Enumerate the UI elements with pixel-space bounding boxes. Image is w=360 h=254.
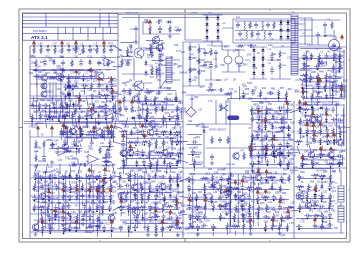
svg-text:4.7K: 4.7K bbox=[97, 225, 102, 227]
svg-text:EMI: EMI bbox=[236, 17, 240, 19]
svg-text:D31: D31 bbox=[107, 187, 112, 190]
svg-text:1M: 1M bbox=[179, 228, 182, 230]
svg-text:1M: 1M bbox=[284, 157, 287, 159]
svg-text:C71: C71 bbox=[106, 69, 111, 72]
svg-text:R87: R87 bbox=[200, 65, 205, 68]
svg-text:2SC945: 2SC945 bbox=[322, 155, 331, 157]
svg-text:100u: 100u bbox=[35, 198, 41, 200]
svg-text:R44: R44 bbox=[276, 148, 281, 151]
svg-text:L75: L75 bbox=[128, 192, 133, 195]
svg-text:R32: R32 bbox=[201, 70, 206, 73]
svg-text:R90: R90 bbox=[307, 104, 312, 107]
svg-text:D22: D22 bbox=[117, 192, 122, 195]
svg-text:C50: C50 bbox=[294, 89, 299, 92]
svg-text:Q99: Q99 bbox=[76, 136, 81, 139]
svg-text:4.7K: 4.7K bbox=[108, 77, 113, 79]
svg-text:4.7K: 4.7K bbox=[92, 132, 97, 134]
svg-text:10K: 10K bbox=[141, 117, 146, 119]
svg-text:Q62: Q62 bbox=[107, 90, 112, 93]
svg-text:C60: C60 bbox=[275, 214, 280, 217]
svg-text:R91: R91 bbox=[237, 191, 242, 194]
svg-text:L54: L54 bbox=[86, 80, 91, 83]
svg-text:2SC945: 2SC945 bbox=[166, 153, 175, 155]
svg-text:R57: R57 bbox=[274, 220, 279, 223]
svg-text:D83: D83 bbox=[282, 192, 287, 195]
svg-text:Z88: Z88 bbox=[98, 62, 103, 65]
svg-text:Q50: Q50 bbox=[123, 205, 128, 208]
svg-text:4.7K: 4.7K bbox=[257, 96, 262, 98]
svg-text:L55: L55 bbox=[72, 164, 77, 167]
svg-text:Q35: Q35 bbox=[65, 223, 70, 226]
svg-text:2.2K: 2.2K bbox=[314, 132, 319, 134]
svg-text:D90: D90 bbox=[138, 169, 143, 172]
svg-text:1N4148: 1N4148 bbox=[198, 207, 207, 209]
svg-text:R63: R63 bbox=[230, 175, 235, 178]
svg-text:Z52: Z52 bbox=[157, 136, 162, 139]
svg-text:L49: L49 bbox=[91, 222, 96, 225]
svg-text:2SC945: 2SC945 bbox=[89, 226, 98, 228]
svg-text:R85: R85 bbox=[245, 88, 250, 91]
svg-text:Q90: Q90 bbox=[135, 202, 140, 205]
svg-text:LM339: LM339 bbox=[88, 104, 96, 106]
svg-text:C44: C44 bbox=[188, 120, 193, 123]
svg-text:R32: R32 bbox=[194, 96, 199, 99]
svg-text:3.3K: 3.3K bbox=[158, 88, 163, 90]
svg-text:Z25: Z25 bbox=[306, 65, 311, 68]
svg-text:C73: C73 bbox=[81, 90, 86, 93]
svg-text:Q60: Q60 bbox=[99, 222, 104, 225]
svg-text:Z36: Z36 bbox=[310, 200, 315, 203]
svg-text:D99: D99 bbox=[222, 200, 227, 203]
svg-text:C81: C81 bbox=[277, 59, 282, 62]
svg-text:22K: 22K bbox=[262, 145, 267, 147]
svg-text:1M: 1M bbox=[316, 163, 319, 165]
svg-text:4.7K: 4.7K bbox=[85, 210, 90, 212]
svg-text:R24: R24 bbox=[267, 192, 272, 195]
svg-text:Q12: Q12 bbox=[317, 180, 322, 183]
svg-text:Q34: Q34 bbox=[301, 102, 306, 105]
svg-text:Z86: Z86 bbox=[207, 192, 212, 195]
svg-text:D53: D53 bbox=[91, 170, 96, 173]
svg-text:D43: D43 bbox=[56, 211, 61, 214]
svg-text:4.7K: 4.7K bbox=[244, 94, 249, 96]
svg-text:Q12: Q12 bbox=[149, 45, 154, 47]
svg-text:R21: R21 bbox=[164, 222, 169, 225]
svg-text:C92: C92 bbox=[237, 202, 242, 205]
svg-text:Z66: Z66 bbox=[190, 226, 195, 229]
svg-text:10K: 10K bbox=[39, 123, 44, 125]
svg-text:C58: C58 bbox=[290, 122, 295, 125]
svg-text:D63: D63 bbox=[289, 139, 294, 142]
svg-text:R92: R92 bbox=[60, 67, 65, 70]
svg-text:2SC945: 2SC945 bbox=[43, 172, 52, 174]
svg-text:Q18: Q18 bbox=[72, 157, 77, 160]
svg-text:1N5822: 1N5822 bbox=[93, 96, 102, 98]
svg-text:R25: R25 bbox=[267, 112, 272, 115]
svg-text:L65: L65 bbox=[35, 173, 40, 176]
svg-text:L22: L22 bbox=[158, 156, 163, 159]
svg-text:1N4148: 1N4148 bbox=[197, 197, 206, 199]
svg-text:2.2K: 2.2K bbox=[144, 219, 149, 221]
svg-text:R34: R34 bbox=[166, 192, 171, 195]
svg-text:IC2B: IC2B bbox=[84, 152, 90, 154]
svg-text:C65: C65 bbox=[68, 100, 73, 103]
svg-text:C73: C73 bbox=[192, 46, 197, 49]
svg-text:R52: R52 bbox=[252, 172, 257, 175]
svg-text:1N4148: 1N4148 bbox=[148, 207, 157, 209]
svg-text:22K: 22K bbox=[125, 201, 130, 203]
svg-text:D57: D57 bbox=[167, 87, 172, 90]
svg-text:1N5822: 1N5822 bbox=[195, 214, 204, 216]
svg-text:C24: C24 bbox=[159, 60, 164, 63]
svg-text:C66: C66 bbox=[111, 200, 116, 203]
svg-text:C98: C98 bbox=[171, 158, 176, 161]
svg-text:R45: R45 bbox=[40, 61, 45, 64]
svg-text:1N5822: 1N5822 bbox=[195, 162, 204, 164]
svg-text:Q16: Q16 bbox=[172, 127, 177, 130]
svg-text:1N5822: 1N5822 bbox=[119, 122, 128, 124]
svg-text:1M: 1M bbox=[253, 184, 256, 186]
svg-text:22K: 22K bbox=[321, 142, 326, 144]
svg-text:100u: 100u bbox=[341, 132, 347, 134]
svg-text:C50: C50 bbox=[304, 114, 309, 117]
svg-text:Z50: Z50 bbox=[335, 71, 340, 74]
svg-text:L41: L41 bbox=[125, 61, 130, 64]
svg-text:Q58: Q58 bbox=[237, 182, 242, 185]
svg-text:1K: 1K bbox=[73, 116, 76, 118]
svg-text:4.7K: 4.7K bbox=[78, 147, 83, 149]
svg-text:Z49: Z49 bbox=[323, 221, 328, 224]
svg-text:C12: C12 bbox=[274, 121, 279, 124]
svg-text:R48: R48 bbox=[182, 91, 187, 94]
svg-text:R47: R47 bbox=[50, 192, 55, 195]
svg-text:R60: R60 bbox=[176, 174, 181, 177]
svg-text:Z83: Z83 bbox=[260, 120, 265, 123]
svg-text:3.3K: 3.3K bbox=[63, 134, 68, 136]
svg-text:10K: 10K bbox=[143, 227, 148, 229]
svg-text:L25: L25 bbox=[78, 171, 83, 174]
svg-text:2SC945: 2SC945 bbox=[61, 132, 70, 134]
svg-text:R11: R11 bbox=[334, 90, 339, 93]
svg-text:R28: R28 bbox=[321, 170, 326, 173]
svg-text:R55: R55 bbox=[157, 202, 162, 205]
svg-text:L76: L76 bbox=[35, 74, 40, 77]
svg-text:Q62: Q62 bbox=[243, 203, 248, 206]
svg-text:Q59: Q59 bbox=[54, 111, 59, 114]
svg-text:R72: R72 bbox=[120, 152, 125, 155]
svg-text:3.3K: 3.3K bbox=[317, 216, 322, 218]
svg-text:Q98: Q98 bbox=[78, 128, 83, 131]
svg-text:4.7K: 4.7K bbox=[64, 207, 69, 209]
svg-text:Q49: Q49 bbox=[151, 180, 156, 183]
svg-text:10K: 10K bbox=[327, 110, 332, 112]
svg-text:L42: L42 bbox=[161, 101, 166, 104]
svg-text:D44: D44 bbox=[314, 116, 319, 119]
svg-text:1M: 1M bbox=[335, 142, 338, 144]
svg-text:1M: 1M bbox=[259, 111, 262, 113]
svg-text:1N5822: 1N5822 bbox=[85, 232, 94, 234]
svg-text:C76: C76 bbox=[331, 142, 336, 145]
svg-text:2SC945: 2SC945 bbox=[314, 120, 323, 122]
svg-text:100u: 100u bbox=[329, 150, 335, 152]
svg-text:L20: L20 bbox=[213, 181, 218, 184]
svg-text:R22: R22 bbox=[105, 222, 110, 225]
svg-text:L71: L71 bbox=[85, 71, 90, 74]
svg-text:2SC945: 2SC945 bbox=[283, 128, 292, 130]
svg-text:4.7K: 4.7K bbox=[281, 208, 286, 210]
svg-text:Q49: Q49 bbox=[241, 208, 246, 211]
svg-text:Q79: Q79 bbox=[247, 53, 252, 56]
svg-text:C72: C72 bbox=[245, 170, 250, 173]
svg-text:D37: D37 bbox=[45, 72, 50, 75]
svg-text:Q51: Q51 bbox=[78, 180, 83, 183]
svg-text:L40: L40 bbox=[117, 49, 122, 52]
svg-text:100u: 100u bbox=[191, 70, 197, 72]
svg-text:Z50: Z50 bbox=[304, 91, 309, 94]
svg-text:10K: 10K bbox=[334, 228, 339, 230]
svg-text:C36: C36 bbox=[214, 171, 219, 174]
svg-text:D52: D52 bbox=[99, 212, 104, 215]
svg-text:1M: 1M bbox=[234, 91, 237, 93]
svg-text:22K: 22K bbox=[321, 196, 326, 198]
svg-text:L75: L75 bbox=[287, 57, 292, 60]
svg-text:3.3K: 3.3K bbox=[150, 177, 155, 179]
svg-text:100u: 100u bbox=[330, 187, 336, 189]
svg-text:R30: R30 bbox=[151, 150, 156, 153]
svg-text:C77: C77 bbox=[300, 164, 305, 167]
svg-text:100u: 100u bbox=[268, 109, 274, 111]
svg-text:R74: R74 bbox=[109, 43, 114, 46]
svg-text:L54: L54 bbox=[157, 79, 162, 82]
svg-text:4.7K: 4.7K bbox=[335, 104, 340, 106]
svg-text:C90: C90 bbox=[114, 91, 119, 94]
svg-text:3.3K: 3.3K bbox=[291, 156, 296, 158]
svg-text:Q73: Q73 bbox=[143, 135, 148, 138]
svg-text:Z89: Z89 bbox=[104, 201, 109, 204]
svg-text:Z77: Z77 bbox=[283, 122, 288, 125]
svg-text:D81: D81 bbox=[300, 171, 305, 174]
svg-text:R20: R20 bbox=[243, 192, 248, 195]
svg-text:4.7K: 4.7K bbox=[327, 57, 332, 59]
svg-text:22K: 22K bbox=[109, 102, 114, 104]
svg-text:1K: 1K bbox=[58, 51, 61, 53]
svg-text:1M: 1M bbox=[275, 155, 278, 157]
svg-text:Z50: Z50 bbox=[162, 197, 167, 200]
svg-text:L57: L57 bbox=[171, 73, 176, 76]
svg-text:R98: R98 bbox=[268, 176, 273, 179]
svg-text:C51: C51 bbox=[164, 171, 169, 174]
svg-text:Z53: Z53 bbox=[186, 205, 191, 208]
svg-text:R11: R11 bbox=[93, 109, 98, 112]
svg-text:C99: C99 bbox=[220, 64, 225, 67]
svg-text:R51: R51 bbox=[125, 126, 130, 129]
svg-text:R59: R59 bbox=[44, 185, 49, 188]
svg-text:2.2K: 2.2K bbox=[213, 178, 218, 180]
svg-text:C87: C87 bbox=[86, 133, 91, 136]
svg-text:L47: L47 bbox=[335, 114, 340, 117]
svg-text:Q88: Q88 bbox=[324, 211, 329, 214]
svg-text:C20: C20 bbox=[104, 126, 109, 129]
svg-text:Q14: Q14 bbox=[205, 220, 210, 223]
svg-text:C70: C70 bbox=[196, 156, 201, 159]
svg-text:R74: R74 bbox=[78, 140, 83, 143]
svg-text:Q56: Q56 bbox=[244, 181, 249, 184]
svg-text:R25: R25 bbox=[220, 196, 225, 199]
svg-text:R64: R64 bbox=[160, 55, 165, 58]
svg-text:2.2K: 2.2K bbox=[321, 66, 326, 68]
svg-text:R56: R56 bbox=[262, 196, 267, 199]
svg-text:L37: L37 bbox=[157, 211, 162, 214]
svg-text:1N5822: 1N5822 bbox=[268, 189, 277, 191]
svg-text:Z43: Z43 bbox=[262, 87, 267, 90]
svg-text:D18: D18 bbox=[343, 80, 348, 83]
svg-text:Z57: Z57 bbox=[179, 127, 184, 130]
svg-text:2.2K: 2.2K bbox=[140, 109, 145, 111]
svg-text:R21: R21 bbox=[186, 179, 191, 182]
svg-text:1M: 1M bbox=[259, 163, 262, 165]
svg-text:2SC945: 2SC945 bbox=[285, 146, 294, 148]
svg-text:2.2K: 2.2K bbox=[98, 207, 103, 209]
svg-text:3.3K: 3.3K bbox=[131, 153, 136, 155]
svg-text:Q44: Q44 bbox=[322, 135, 327, 138]
svg-text:R13: R13 bbox=[148, 165, 153, 168]
svg-text:100u: 100u bbox=[180, 212, 186, 214]
svg-text:R84: R84 bbox=[320, 113, 325, 116]
svg-text:D90: D90 bbox=[332, 170, 337, 173]
svg-text:R91: R91 bbox=[71, 222, 76, 225]
svg-text:C50: C50 bbox=[101, 107, 106, 110]
svg-text:L84: L84 bbox=[39, 43, 44, 46]
svg-text:ATX-300P4: ATX-300P4 bbox=[33, 29, 47, 33]
svg-text:AC IN: AC IN bbox=[326, 34, 332, 37]
svg-text:2.2K: 2.2K bbox=[315, 141, 320, 143]
svg-text:1M: 1M bbox=[233, 79, 236, 81]
svg-text:C76: C76 bbox=[139, 144, 144, 147]
svg-text:Z40: Z40 bbox=[77, 222, 82, 225]
svg-text:FUSE F1 5A: FUSE F1 5A bbox=[244, 44, 257, 47]
svg-text:4.7K: 4.7K bbox=[69, 147, 74, 149]
svg-text:D60: D60 bbox=[268, 172, 273, 175]
svg-text:C48: C48 bbox=[144, 201, 149, 204]
svg-text:C10: C10 bbox=[119, 65, 124, 68]
svg-text:C87: C87 bbox=[144, 213, 149, 216]
svg-text:Z14: Z14 bbox=[308, 190, 313, 193]
svg-text:Z10: Z10 bbox=[323, 191, 328, 194]
svg-text:1N4148: 1N4148 bbox=[64, 177, 73, 179]
svg-text:Z63: Z63 bbox=[31, 61, 36, 64]
svg-text:1N4148: 1N4148 bbox=[305, 85, 314, 87]
svg-text:C61: C61 bbox=[252, 89, 257, 92]
svg-text:L22: L22 bbox=[100, 142, 105, 145]
svg-text:L20: L20 bbox=[213, 191, 218, 194]
svg-text:L60: L60 bbox=[341, 50, 346, 53]
svg-text:C52: C52 bbox=[317, 210, 322, 213]
svg-text:L56: L56 bbox=[196, 60, 201, 63]
svg-text:R86: R86 bbox=[58, 182, 63, 185]
svg-text:10K: 10K bbox=[112, 187, 117, 189]
svg-text:Z84: Z84 bbox=[102, 157, 107, 160]
svg-text:R13: R13 bbox=[34, 100, 39, 103]
svg-text:2.2K: 2.2K bbox=[112, 86, 117, 88]
svg-text:10K: 10K bbox=[173, 116, 178, 118]
svg-text:C82: C82 bbox=[49, 201, 54, 204]
svg-text:R38: R38 bbox=[144, 126, 149, 129]
svg-text:Q36: Q36 bbox=[43, 181, 48, 184]
svg-text:R81: R81 bbox=[271, 87, 276, 90]
svg-text:Z36: Z36 bbox=[170, 137, 175, 140]
svg-text:10K: 10K bbox=[259, 102, 264, 104]
svg-text:Z23: Z23 bbox=[93, 80, 98, 83]
svg-text:D73: D73 bbox=[301, 218, 306, 221]
svg-text:L20: L20 bbox=[268, 201, 273, 204]
svg-text:1M: 1M bbox=[125, 174, 128, 176]
svg-text:R43: R43 bbox=[41, 109, 46, 112]
svg-text:4.7K: 4.7K bbox=[48, 167, 53, 169]
svg-text:R92: R92 bbox=[72, 181, 77, 184]
svg-text:1K: 1K bbox=[256, 122, 259, 124]
svg-text:22K: 22K bbox=[53, 117, 58, 119]
svg-text:R80: R80 bbox=[64, 190, 69, 193]
svg-text:2.2K: 2.2K bbox=[199, 228, 204, 230]
svg-text:Z84: Z84 bbox=[133, 127, 138, 130]
svg-text:C86: C86 bbox=[92, 70, 97, 73]
svg-text:1N5822: 1N5822 bbox=[335, 77, 344, 79]
svg-text:R41: R41 bbox=[93, 126, 98, 129]
svg-text:C12: C12 bbox=[100, 79, 105, 82]
svg-text:10K: 10K bbox=[281, 163, 286, 165]
svg-text:D55: D55 bbox=[275, 192, 280, 195]
svg-text:1K: 1K bbox=[114, 97, 117, 99]
svg-text:R54: R54 bbox=[322, 103, 327, 106]
svg-text:1N4148: 1N4148 bbox=[338, 86, 347, 88]
svg-text:C13: C13 bbox=[81, 50, 86, 53]
svg-text:L34: L34 bbox=[66, 228, 71, 231]
svg-text:C19: C19 bbox=[314, 157, 319, 160]
svg-text:D51: D51 bbox=[138, 157, 143, 160]
svg-text:1M: 1M bbox=[74, 228, 77, 230]
svg-text:3.3K: 3.3K bbox=[177, 179, 182, 181]
svg-text:1N5822: 1N5822 bbox=[46, 140, 55, 142]
svg-text:C70: C70 bbox=[149, 222, 154, 225]
svg-text:10K: 10K bbox=[158, 70, 163, 72]
svg-text:R79: R79 bbox=[159, 193, 164, 196]
svg-text:4.7K: 4.7K bbox=[147, 100, 152, 102]
svg-text:C94: C94 bbox=[341, 126, 346, 129]
svg-text:D52: D52 bbox=[101, 101, 106, 104]
svg-text:100u: 100u bbox=[62, 77, 68, 79]
svg-text:Z58: Z58 bbox=[315, 126, 320, 129]
svg-text:Z81: Z81 bbox=[252, 148, 257, 151]
svg-text:22K: 22K bbox=[68, 106, 73, 108]
svg-text:3.3K: 3.3K bbox=[307, 45, 312, 47]
svg-text:C76: C76 bbox=[313, 149, 318, 152]
svg-text:3.3K: 3.3K bbox=[132, 86, 137, 88]
svg-text:22K: 22K bbox=[289, 218, 294, 220]
svg-text:22K: 22K bbox=[53, 78, 58, 80]
svg-text:Z12: Z12 bbox=[157, 222, 162, 225]
svg-text:D87: D87 bbox=[250, 191, 255, 194]
svg-text:2.2K: 2.2K bbox=[171, 196, 176, 198]
svg-text:10K: 10K bbox=[98, 197, 103, 199]
svg-text:Q21: Q21 bbox=[313, 90, 318, 93]
svg-text:R49: R49 bbox=[319, 70, 324, 73]
svg-text:1N4148: 1N4148 bbox=[50, 198, 59, 200]
svg-text:1N4148: 1N4148 bbox=[236, 63, 245, 65]
svg-text:R32: R32 bbox=[335, 49, 340, 52]
svg-text:22K: 22K bbox=[175, 225, 180, 227]
svg-text:22K: 22K bbox=[49, 77, 54, 79]
svg-text:C18: C18 bbox=[243, 213, 248, 216]
